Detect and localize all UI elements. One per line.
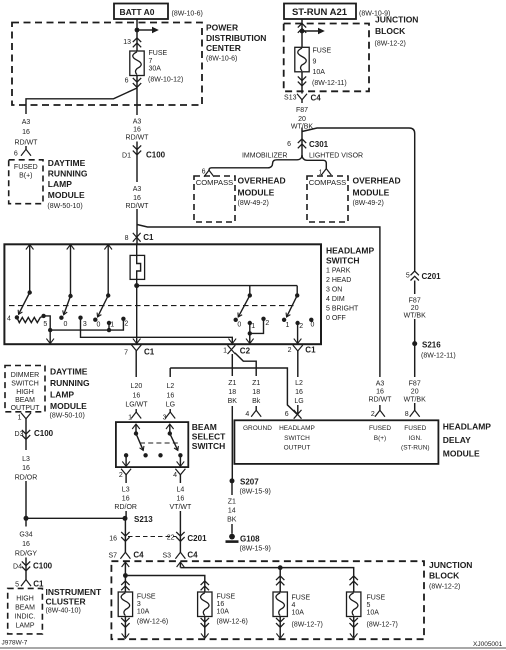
svg-text:FUSE: FUSE [137, 594, 156, 601]
svg-text:HIGH: HIGH [16, 596, 34, 603]
svg-text:(8W-15-9): (8W-15-9) [240, 489, 271, 496]
svg-text:C201: C201 [422, 272, 442, 281]
svg-text:2: 2 [288, 347, 292, 354]
svg-text:F87: F87 [409, 381, 421, 388]
svg-text:3: 3 [83, 321, 87, 328]
svg-text:MODULE: MODULE [50, 401, 87, 411]
svg-text:MODULE: MODULE [353, 187, 390, 197]
svg-text:C100: C100 [34, 429, 54, 438]
svg-text:SWITCH: SWITCH [284, 435, 310, 442]
svg-text:INSTRUMENT: INSTRUMENT [46, 587, 103, 597]
svg-text:C201: C201 [187, 534, 207, 543]
svg-text:GROUND: GROUND [243, 425, 272, 432]
svg-text:POWER: POWER [206, 23, 238, 33]
svg-text:16: 16 [133, 393, 141, 400]
svg-text:7: 7 [149, 58, 153, 65]
svg-text:1: 1 [223, 348, 227, 355]
svg-text:A3: A3 [376, 381, 385, 388]
svg-text:WT/BK: WT/BK [404, 312, 426, 319]
svg-text:FUSE: FUSE [149, 50, 168, 57]
svg-text:S216: S216 [422, 341, 441, 350]
svg-text:RUNNING: RUNNING [48, 168, 88, 178]
svg-text:C2: C2 [240, 347, 251, 356]
svg-text:COMPASS: COMPASS [309, 178, 346, 187]
svg-text:2 HEAD: 2 HEAD [326, 277, 351, 284]
svg-text:16: 16 [177, 496, 185, 503]
svg-text:16: 16 [376, 389, 384, 396]
svg-text:(8W-12-11): (8W-12-11) [421, 353, 456, 360]
svg-text:WT/BK: WT/BK [291, 123, 313, 130]
svg-text:S213: S213 [134, 515, 153, 524]
svg-text:DISTRIBUTION: DISTRIBUTION [206, 33, 266, 43]
svg-text:L2: L2 [295, 380, 303, 387]
svg-text:BEAM: BEAM [192, 422, 217, 432]
svg-text:1: 1 [128, 415, 132, 422]
svg-text:6: 6 [287, 141, 291, 148]
svg-text:6: 6 [285, 411, 289, 418]
svg-text:B(+): B(+) [374, 435, 386, 442]
svg-text:(ST-RUN): (ST-RUN) [401, 445, 430, 452]
svg-text:(8W-12-6): (8W-12-6) [137, 619, 168, 626]
svg-text:CENTER: CENTER [206, 43, 241, 53]
svg-text:B(+): B(+) [19, 173, 32, 180]
svg-text:10A: 10A [292, 610, 305, 617]
svg-text:BK: BK [227, 517, 237, 524]
svg-text:C1: C1 [305, 346, 316, 355]
svg-text:RD/OR: RD/OR [15, 475, 38, 482]
svg-text:Z1: Z1 [228, 499, 236, 506]
svg-text:FUSE: FUSE [367, 595, 386, 602]
svg-text:Z1: Z1 [228, 380, 236, 387]
svg-text:WT/BK: WT/BK [404, 396, 426, 403]
svg-text:SWITCH: SWITCH [192, 441, 226, 451]
svg-text:DAYTIME: DAYTIME [48, 158, 86, 168]
svg-text:3: 3 [137, 601, 141, 608]
svg-text:FUSE: FUSE [217, 594, 236, 601]
svg-text:0 OFF: 0 OFF [326, 315, 346, 322]
svg-text:SWITCH: SWITCH [11, 381, 39, 388]
svg-text:7: 7 [124, 350, 128, 357]
svg-text:SELECT: SELECT [192, 432, 226, 442]
svg-text:OUTPUT: OUTPUT [284, 445, 311, 452]
svg-text:16: 16 [122, 496, 130, 503]
svg-text:10A: 10A [217, 609, 230, 616]
svg-text:2: 2 [371, 411, 375, 418]
svg-text:16: 16 [22, 465, 30, 472]
svg-text:C4: C4 [133, 551, 144, 560]
svg-text:2: 2 [265, 320, 269, 327]
svg-text:(8W-10-6): (8W-10-6) [172, 11, 203, 18]
svg-text:(8W-50-10): (8W-50-10) [47, 203, 82, 210]
svg-text:5 BRIGHT: 5 BRIGHT [326, 306, 359, 313]
svg-text:ST-RUN A21: ST-RUN A21 [292, 7, 348, 18]
svg-text:5: 5 [406, 273, 410, 280]
svg-text:A3: A3 [133, 119, 142, 126]
svg-text:S13: S13 [284, 95, 297, 102]
svg-text:FUSE: FUSE [313, 48, 332, 55]
svg-text:6: 6 [125, 78, 129, 85]
svg-text:4: 4 [173, 472, 177, 479]
svg-text:G34: G34 [19, 532, 32, 539]
svg-text:C301: C301 [309, 140, 329, 149]
svg-text:4: 4 [7, 315, 11, 322]
svg-text:1: 1 [319, 170, 323, 177]
svg-text:BK: BK [228, 398, 238, 405]
svg-text:30A: 30A [149, 66, 162, 73]
svg-text:COMPASS: COMPASS [196, 178, 233, 187]
svg-text:L2: L2 [167, 383, 175, 390]
svg-text:FUSED: FUSED [14, 164, 38, 171]
svg-text:1: 1 [251, 323, 255, 330]
svg-text:0: 0 [97, 322, 101, 329]
svg-text:DAYTIME: DAYTIME [50, 366, 88, 376]
svg-text:(8W-12-11): (8W-12-11) [312, 80, 347, 87]
svg-text:LAMP: LAMP [15, 623, 34, 630]
svg-text:HEADLAMP: HEADLAMP [326, 246, 374, 256]
svg-text:L20: L20 [131, 383, 143, 390]
svg-text:INDIC.: INDIC. [15, 614, 36, 621]
svg-text:C1: C1 [33, 580, 44, 589]
svg-text:10A: 10A [367, 610, 380, 617]
svg-text:1: 1 [286, 322, 290, 329]
svg-text:(8W-40-10): (8W-40-10) [46, 608, 81, 615]
svg-text:3 ON: 3 ON [326, 287, 342, 294]
svg-text:RD/GY: RD/GY [15, 551, 38, 558]
svg-text:16: 16 [295, 389, 303, 396]
svg-text:LIGHTED VISOR: LIGHTED VISOR [309, 153, 363, 160]
svg-text:(8W-49-2): (8W-49-2) [353, 200, 384, 207]
svg-text:4: 4 [245, 411, 249, 418]
svg-text:16: 16 [109, 536, 117, 543]
svg-text:14: 14 [228, 508, 236, 515]
svg-text:LG/WT: LG/WT [125, 402, 148, 409]
svg-text:16: 16 [22, 541, 30, 548]
svg-text:5: 5 [43, 321, 47, 328]
svg-text:A3: A3 [133, 186, 142, 193]
svg-text:6: 6 [14, 151, 18, 158]
svg-text:(8W-12-7): (8W-12-7) [292, 622, 323, 629]
svg-text:VT/WT: VT/WT [170, 504, 192, 511]
svg-text:4 DIM: 4 DIM [326, 296, 345, 303]
svg-text:D4: D4 [13, 564, 22, 571]
svg-text:J978W-7: J978W-7 [2, 640, 28, 647]
svg-text:MODULE: MODULE [48, 190, 85, 200]
svg-text:XJ005001: XJ005001 [473, 641, 503, 648]
svg-text:(8W-15-9): (8W-15-9) [240, 546, 271, 553]
svg-text:20: 20 [411, 389, 419, 396]
svg-text:RD/WT: RD/WT [15, 140, 39, 147]
svg-text:C1: C1 [144, 348, 155, 357]
svg-text:4: 4 [292, 602, 296, 609]
svg-text:3: 3 [163, 415, 167, 422]
svg-text:8: 8 [405, 411, 409, 418]
svg-text:OVERHEAD: OVERHEAD [238, 175, 286, 185]
svg-text:10A: 10A [137, 609, 150, 616]
svg-text:8: 8 [125, 235, 129, 242]
svg-text:FUSED: FUSED [369, 425, 391, 432]
svg-text:Z1: Z1 [252, 380, 260, 387]
svg-text:HEADLAMP: HEADLAMP [443, 422, 491, 432]
svg-text:DELAY: DELAY [443, 435, 471, 445]
svg-text:20: 20 [298, 116, 306, 123]
svg-text:FUSE: FUSE [292, 595, 311, 602]
svg-text:D3: D3 [15, 431, 24, 438]
svg-text:BLOCK: BLOCK [375, 26, 406, 36]
svg-text:RD/OR: RD/OR [114, 504, 137, 511]
svg-text:HEADLAMP: HEADLAMP [279, 425, 315, 432]
svg-text:S3: S3 [162, 553, 171, 560]
svg-text:(8W-49-2): (8W-49-2) [238, 200, 269, 207]
svg-text:5: 5 [367, 602, 371, 609]
svg-text:1 PARK: 1 PARK [326, 268, 351, 275]
svg-text:16: 16 [217, 601, 225, 608]
svg-text:FUSED: FUSED [404, 425, 426, 432]
svg-text:LG: LG [166, 402, 175, 409]
svg-text:10A: 10A [313, 69, 326, 76]
svg-text:1: 1 [18, 415, 22, 422]
svg-text:18: 18 [252, 389, 260, 396]
svg-text:C1: C1 [143, 233, 154, 242]
svg-text:Bk: Bk [252, 398, 261, 405]
svg-text:13: 13 [123, 39, 131, 46]
svg-text:L3: L3 [122, 487, 130, 494]
svg-text:F87: F87 [409, 298, 421, 305]
svg-text:C4: C4 [311, 94, 322, 103]
svg-text:0: 0 [64, 321, 68, 328]
svg-text:BEAM: BEAM [15, 605, 35, 612]
svg-text:DIMMER: DIMMER [11, 372, 39, 379]
svg-text:S207: S207 [240, 478, 259, 487]
svg-text:16: 16 [167, 393, 175, 400]
svg-text:6: 6 [202, 169, 206, 176]
svg-text:20: 20 [411, 305, 419, 312]
svg-text:JUNCTION: JUNCTION [429, 560, 472, 570]
svg-text:OVERHEAD: OVERHEAD [353, 175, 401, 185]
svg-text:22: 22 [167, 535, 175, 542]
svg-text:RUNNING: RUNNING [50, 378, 90, 388]
svg-text:RD/WT: RD/WT [126, 203, 150, 210]
svg-text:RD/WT: RD/WT [369, 396, 393, 403]
svg-text:LAMP: LAMP [50, 390, 74, 400]
svg-text:0: 0 [237, 322, 241, 329]
svg-text:JUNCTION: JUNCTION [375, 15, 418, 25]
svg-text:IMMOBILIZER: IMMOBILIZER [242, 153, 288, 160]
svg-text:2: 2 [299, 323, 303, 330]
svg-text:16: 16 [22, 129, 30, 136]
svg-text:OUTPUT: OUTPUT [11, 405, 41, 412]
svg-text:18: 18 [228, 389, 236, 396]
svg-text:0: 0 [311, 322, 315, 329]
svg-text:16: 16 [133, 127, 141, 134]
svg-text:HIGH: HIGH [16, 389, 34, 396]
svg-text:S7: S7 [108, 553, 117, 560]
svg-text:(8W-10-6): (8W-10-6) [206, 56, 237, 63]
svg-text:1: 1 [110, 322, 114, 329]
svg-text:BLOCK: BLOCK [429, 571, 460, 581]
svg-text:CLUSTER: CLUSTER [46, 597, 86, 607]
svg-text:C100: C100 [146, 151, 166, 160]
svg-text:(8W-50-10): (8W-50-10) [50, 413, 85, 420]
svg-text:L4: L4 [177, 487, 185, 494]
svg-text:IGN.: IGN. [409, 435, 423, 442]
svg-text:C4: C4 [187, 551, 198, 560]
svg-text:RD/WT: RD/WT [126, 135, 150, 142]
svg-text:(8W-10-12): (8W-10-12) [148, 77, 183, 84]
svg-text:L3: L3 [22, 456, 30, 463]
svg-text:(8W-12-6): (8W-12-6) [217, 619, 248, 626]
svg-text:F87: F87 [296, 107, 308, 114]
svg-text:G108: G108 [240, 535, 260, 544]
svg-text:C100: C100 [33, 562, 53, 571]
svg-text:9: 9 [313, 58, 317, 65]
svg-text:D1: D1 [122, 153, 131, 160]
svg-text:(8W-12-2): (8W-12-2) [429, 584, 460, 591]
svg-text:2: 2 [119, 472, 123, 479]
svg-text:SWITCH: SWITCH [326, 256, 360, 266]
svg-text:16: 16 [133, 195, 141, 202]
svg-text:MODULE: MODULE [443, 449, 480, 459]
svg-text:BATT A0: BATT A0 [120, 7, 155, 17]
svg-text:(8W-12-7): (8W-12-7) [367, 622, 398, 629]
svg-text:LG: LG [294, 398, 303, 405]
svg-text:A3: A3 [22, 119, 31, 126]
svg-text:(8W-12-2): (8W-12-2) [375, 41, 406, 48]
svg-text:2: 2 [124, 321, 128, 328]
svg-text:BEAM: BEAM [15, 397, 35, 404]
svg-text:LAMP: LAMP [48, 179, 72, 189]
svg-text:5: 5 [15, 582, 19, 589]
svg-text:MODULE: MODULE [238, 187, 275, 197]
